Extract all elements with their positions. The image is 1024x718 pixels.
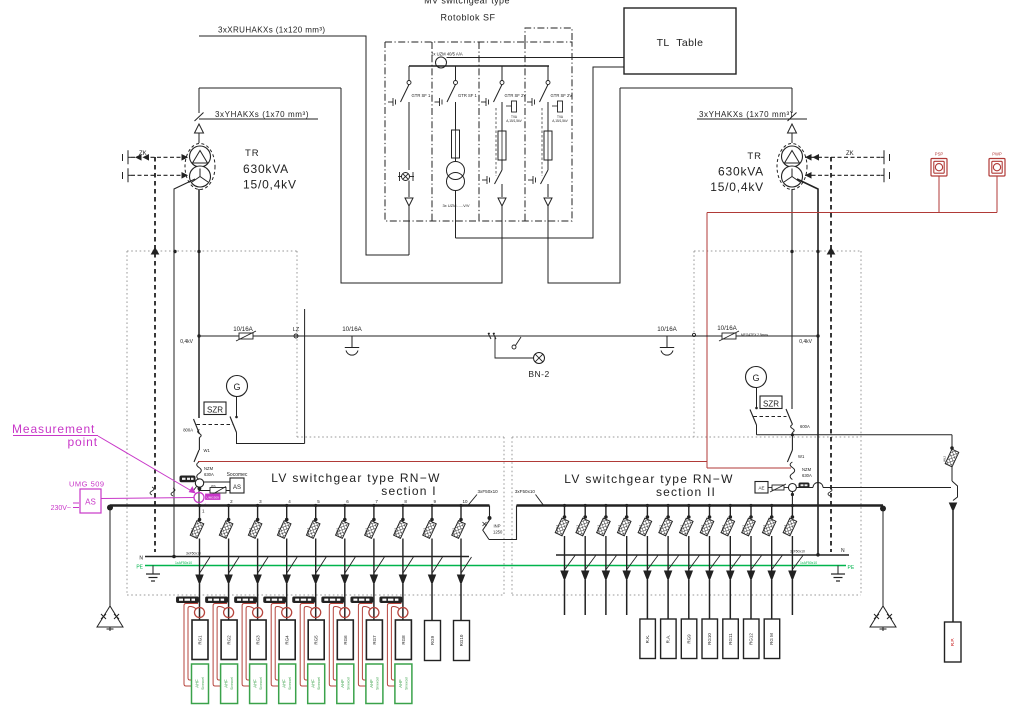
red control wire riser	[706, 213, 708, 469]
outgoing panel RG1	[192, 620, 208, 660]
svg-text:TL Table: TL Table	[657, 37, 704, 49]
section II feeder 12 wire	[791, 580, 793, 615]
section II feeder 1 switch	[555, 504, 575, 580]
svg-text:RG3: RG3	[256, 635, 261, 645]
svg-text:15/0,4kV: 15/0,4kV	[243, 178, 297, 192]
svg-text:630kVA: 630kVA	[243, 162, 289, 176]
incoming MV cable 3xXRUHAKXs	[199, 26, 409, 256]
left transformer cable arrow	[195, 124, 204, 143]
section II feeder 7 switch	[679, 504, 699, 580]
section I feeder 4 switch	[277, 499, 297, 584]
UMG 509 power analyser	[51, 480, 194, 514]
svg-text:R.K.: R.K.	[645, 635, 650, 644]
svg-text:3xF50x10: 3xF50x10	[478, 489, 499, 494]
svg-text:section II: section II	[656, 485, 716, 499]
svg-text:3xF50x10: 3xF50x10	[515, 489, 536, 494]
red control wire to section I incomer	[198, 461, 707, 463]
svg-text:INP: INP	[494, 524, 501, 529]
left transformer neutral conductor	[174, 179, 195, 557]
aux socket outlet 1	[342, 326, 362, 355]
generator G left	[227, 376, 248, 397]
feeder 5 CT plate	[293, 597, 315, 603]
svg-text:RG9: RG9	[430, 635, 435, 645]
section II feeder 9 switch	[721, 504, 741, 580]
svg-text:Sinexcel: Sinexcel	[259, 677, 263, 690]
ZK riser right (dashed)	[830, 157, 832, 552]
0,4kV auxiliary bus	[180, 334, 819, 345]
svg-text:AHF: AHF	[311, 679, 316, 688]
breaker NZM 630A right	[787, 450, 812, 480]
feeder 3 measuring CT (red)	[253, 608, 263, 618]
svg-text:WŁ2: WŁ2	[742, 525, 746, 532]
svg-text:WŁ2: WŁ2	[306, 528, 310, 535]
transformer TR1	[185, 144, 215, 190]
svg-text:WŁ2: WŁ2	[555, 525, 559, 532]
MV switchgear title	[424, 0, 510, 23]
red control wire PSP/PWP	[707, 176, 997, 213]
svg-text:WŁ2: WŁ2	[700, 525, 704, 532]
svg-text:W1: W1	[204, 448, 211, 453]
section II feeder 11 switch	[762, 504, 782, 580]
MV bay 2 wire down	[455, 191, 457, 239]
svg-text:Sinexcel: Sinexcel	[404, 677, 408, 690]
svg-text:RG4: RG4	[285, 635, 290, 645]
feeder 1 wire	[199, 584, 201, 620]
svg-text:15/0,4kV: 15/0,4kV	[710, 180, 764, 194]
outgoing panel RG12	[744, 619, 760, 659]
MV bay 1 disconnector GTR SF 1	[388, 66, 431, 106]
MV bay 2 disconnector GTR SF 1	[435, 66, 478, 106]
svg-text:3xF50x10: 3xF50x10	[186, 552, 201, 556]
svg-text:SZR: SZR	[763, 400, 779, 409]
section II neutral bus N	[556, 548, 849, 555]
feeder 7 CT plate	[351, 597, 373, 603]
outgoing panel RG4	[279, 620, 295, 660]
fuse link to AS	[199, 484, 230, 495]
feeder 8 measuring CT (red)	[398, 608, 408, 618]
busbar size callout section I	[468, 489, 498, 505]
reserve feeder wire lower with crossover	[796, 483, 951, 488]
MV cabinet top extension box	[525, 28, 572, 42]
MV bay 4 fuse-switch internals	[528, 101, 569, 206]
section II feeder 4 wire	[626, 580, 628, 615]
svg-text:WŁ2: WŁ2	[679, 525, 683, 532]
svg-text:Sinexcel: Sinexcel	[346, 677, 350, 690]
svg-text:AS: AS	[85, 498, 96, 507]
reserve feeder wire upper	[757, 433, 953, 436]
svg-text:GTR SF 1: GTR SF 1	[458, 93, 478, 98]
feeder 4 AHF wiring (red)	[271, 604, 285, 687]
feeder 6 wire	[344, 584, 346, 620]
svg-text:RG6: RG6	[343, 635, 348, 645]
active harmonic filter AHF 5	[308, 664, 325, 704]
section I title	[271, 471, 440, 498]
feeder 9 wire	[431, 584, 433, 620]
feeder 2 wire	[228, 584, 230, 620]
svg-text:Measurement: Measurement	[12, 422, 95, 436]
section II feeder 10 switch	[742, 504, 762, 580]
feeder 1 measuring CT (red)	[195, 608, 205, 618]
svg-text:AHF: AHF	[195, 679, 200, 688]
CT secondary wire to TL Table	[447, 57, 625, 59]
svg-text:3x UZM 40/5 A/A: 3x UZM 40/5 A/A	[431, 52, 463, 57]
svg-text:AHF: AHF	[282, 679, 287, 688]
aux socket outlet 2	[657, 326, 677, 355]
svg-text:PE: PE	[848, 565, 855, 571]
svg-text:Rotoblok SF: Rotoblok SF	[440, 13, 495, 23]
section I feeder 5 switch	[306, 499, 326, 584]
measuring CT right	[788, 484, 796, 497]
aux connection point right	[692, 333, 695, 336]
measurement point marker	[194, 493, 220, 508]
MV switchgear cabinet outline (dash-dot)	[385, 42, 572, 221]
svg-text:10: 10	[463, 499, 469, 504]
svg-text:LZ: LZ	[293, 327, 300, 333]
MV bay 2 voltage transformer 3x UZM...V/V	[442, 158, 469, 208]
right surge arrester	[870, 606, 896, 631]
PE labels right	[800, 561, 855, 571]
svg-text:WŁ2: WŁ2	[190, 528, 194, 535]
svg-text:RG8: RG8	[401, 635, 406, 645]
bus coupler INP 1250	[483, 506, 517, 540]
right transformer cable arrow	[788, 124, 797, 143]
svg-text:N: N	[139, 556, 143, 562]
line break mark right dashed	[828, 488, 832, 496]
active harmonic filter AHF 8	[395, 664, 412, 704]
svg-text:UMG 509: UMG 509	[69, 480, 105, 489]
active harmonic filter AHF 4	[279, 664, 296, 704]
VT secondary wire to TL Table	[456, 67, 625, 238]
svg-text:RG11: RG11	[728, 633, 733, 645]
outgoing panel RG8	[395, 620, 411, 660]
feeder 2 CT plate	[206, 597, 228, 603]
svg-text:GTR SF 2V: GTR SF 2V	[551, 93, 573, 98]
feeder 1 AHF wiring (red)	[184, 604, 198, 687]
right transformer LV phase conductor	[791, 189, 793, 409]
generator G right	[746, 367, 767, 388]
current transformer 3x UZM 40/5 A/A	[431, 52, 463, 69]
feeder 3 AHF wiring (red)	[242, 604, 256, 687]
MV bay 1 riser	[408, 102, 410, 170]
svg-text:800A: 800A	[183, 428, 193, 433]
junction dots right enclosure top	[790, 248, 834, 254]
section I feeder 9 switch	[423, 499, 443, 584]
feeder 7 wire	[373, 584, 375, 620]
svg-text:Sinexcel: Sinexcel	[317, 677, 321, 690]
aux fuse 10/16A left	[233, 326, 256, 341]
feeder 5 wire	[315, 584, 317, 620]
svg-text:230V~: 230V~	[51, 505, 71, 512]
MV bay divider 1-2	[431, 42, 433, 221]
svg-text:ZK: ZK	[846, 151, 854, 157]
svg-text:3xXRUHAKXs (1x120 mm³): 3xXRUHAKXs (1x120 mm³)	[218, 26, 326, 35]
svg-text:WŁ2: WŁ2	[659, 525, 663, 532]
PE bus (green)	[136, 561, 846, 571]
section II feeder 6 switch	[659, 504, 679, 580]
generator reserve riser	[304, 309, 306, 444]
changeover switch 600A right	[750, 388, 810, 450]
junction dots left enclosure top	[152, 248, 201, 254]
wire into bus section I	[198, 490, 200, 505]
section I feeder 2 switch	[219, 499, 239, 584]
transformer TR2	[777, 144, 807, 190]
section II feeder 11 wire	[771, 580, 773, 619]
svg-text:1250: 1250	[493, 530, 503, 535]
LZ connection point	[293, 327, 300, 338]
right transformer neutral conductor	[797, 179, 818, 554]
MV bay divider 3-4	[524, 42, 526, 221]
svg-text:MEGATEX 2,5mm²: MEGATEX 2,5mm²	[741, 333, 768, 337]
svg-text:TR: TR	[747, 151, 762, 162]
svg-text:BN-2: BN-2	[528, 369, 549, 379]
section I feeder 8 switch	[393, 499, 413, 584]
svg-text:RG9: RG9	[686, 634, 691, 644]
outgoing panel RG5	[308, 620, 324, 660]
svg-text:WŁ2: WŁ2	[721, 525, 725, 532]
svg-text:Sinexcel: Sinexcel	[230, 677, 234, 690]
svg-text:AHF: AHF	[224, 679, 229, 688]
svg-text:WŁ2: WŁ2	[248, 528, 252, 535]
svg-text:UMG509: UMG509	[207, 495, 220, 499]
cable 3xYHAKXs right	[620, 88, 807, 121]
section I neutral bus N	[139, 552, 469, 562]
measurement point callout	[12, 422, 195, 493]
section II feeder 3 wire	[605, 580, 607, 615]
svg-text:10/16A: 10/16A	[657, 326, 677, 333]
svg-text:A,15/1,5kV: A,15/1,5kV	[552, 119, 568, 123]
left bus earthing conductor	[107, 505, 113, 607]
MV busbar	[409, 65, 549, 67]
svg-text:PWP: PWP	[992, 152, 1002, 157]
metering plate right	[799, 483, 809, 488]
section I feeder 1 switch	[190, 504, 210, 584]
svg-text:R.P.: R.P.	[950, 638, 955, 646]
svg-text:WŁ2: WŁ2	[576, 525, 580, 532]
line break mark left dashed	[150, 487, 154, 495]
svg-text:WŁ2: WŁ2	[638, 525, 642, 532]
svg-text:WŁ2: WŁ2	[762, 525, 766, 532]
svg-text:AS: AS	[233, 485, 241, 491]
svg-text:10/16A: 10/16A	[233, 326, 253, 333]
svg-text:WŁ2: WŁ2	[596, 525, 600, 532]
feeder 2 measuring CT (red)	[224, 608, 234, 618]
svg-text:PE: PE	[136, 565, 143, 571]
SZR box left	[204, 402, 226, 415]
svg-text:AHF: AHF	[340, 679, 345, 688]
LV switchgear section II enclosure (dotted)	[512, 251, 861, 595]
svg-text:RG M: RG M	[769, 633, 774, 645]
reserve feeder R.P.	[943, 435, 959, 622]
svg-text:G: G	[233, 382, 240, 392]
svg-text:Socomec: Socomec	[227, 472, 248, 478]
wire into bus section II	[791, 491, 793, 505]
svg-text:SZR: SZR	[207, 406, 223, 415]
svg-text:N: N	[841, 548, 845, 554]
MV bay 1 outgoing wire	[408, 206, 410, 255]
outgoing panel RG3	[250, 620, 266, 660]
svg-text:WŁ2: WŁ2	[423, 528, 427, 535]
outgoing panel RG6	[337, 620, 353, 660]
feeder 8 wire	[402, 584, 404, 620]
feeder 10 wire	[460, 584, 462, 620]
red control wire to section II incomer	[707, 467, 791, 469]
svg-text:WŁ2: WŁ2	[452, 528, 456, 535]
svg-text:RG2: RG2	[227, 635, 232, 645]
measuring CT left	[193, 479, 204, 491]
fuse link right incomer	[770, 484, 788, 492]
outgoing panel R.A.	[661, 619, 677, 659]
ZK riser left (dashed)	[154, 157, 156, 552]
svg-text:G: G	[752, 373, 759, 383]
active harmonic filter AHF 2	[221, 664, 238, 704]
section II feeder 5 wire	[646, 580, 648, 619]
aux fuse 10/16A right	[717, 325, 768, 341]
svg-text:AHF: AHF	[253, 679, 258, 688]
active harmonic filter AHF 6	[337, 664, 354, 704]
outgoing panel RG11	[723, 619, 739, 659]
svg-text:LV switchgear type RN−W: LV switchgear type RN−W	[271, 471, 440, 485]
section II feeder 7 wire	[688, 580, 690, 619]
section II feeder 9 wire	[729, 580, 731, 619]
svg-text:3xYHAKXs (1x70 mm³): 3xYHAKXs (1x70 mm³)	[699, 110, 793, 119]
svg-text:GTR SF 1: GTR SF 1	[412, 93, 432, 98]
breaker NZM 630A left	[194, 450, 214, 480]
MV bay 1 cable arrow	[405, 181, 413, 207]
neutral junction left	[172, 555, 176, 559]
feeder 6 CT plate	[322, 597, 344, 603]
svg-text:WŁ2: WŁ2	[783, 525, 787, 532]
feeder 3 CT plate	[235, 597, 257, 603]
PSP fire button	[931, 152, 947, 177]
svg-text:RG10: RG10	[707, 633, 712, 645]
section I feeder 3 switch	[248, 499, 268, 584]
TR2 label	[710, 151, 764, 194]
section II feeder 3 switch	[596, 504, 616, 580]
svg-text:0,4kV: 0,4kV	[180, 339, 193, 345]
section II main busbar	[517, 504, 884, 507]
svg-text:WŁ2: WŁ2	[335, 528, 339, 535]
section II feeder 8 wire	[709, 580, 711, 619]
Socomec AS device	[203, 472, 248, 493]
MV bay 1 earthing indicator	[398, 172, 414, 181]
outgoing panel RG M	[764, 619, 780, 659]
line break mark left neutral	[171, 488, 175, 496]
svg-text:RG12: RG12	[749, 633, 754, 645]
svg-text:PSP: PSP	[935, 152, 944, 157]
svg-text:MV switchgear type: MV switchgear type	[424, 0, 510, 6]
outgoing panel R.P.	[945, 622, 962, 662]
left surge arrester	[97, 606, 123, 631]
svg-text:RG10: RG10	[459, 634, 464, 646]
neutral junction right	[816, 553, 820, 557]
svg-text:WŁ2: WŁ2	[943, 456, 947, 463]
svg-text:W1: W1	[798, 454, 805, 459]
MV bay 2 fuse	[452, 102, 460, 158]
active harmonic filter AHF 7	[366, 664, 383, 704]
svg-text:3x UZM......V/V: 3x UZM......V/V	[442, 203, 469, 208]
MV bay divider 2-3	[478, 42, 480, 221]
feeder 1 CT plate	[177, 597, 199, 603]
section II feeder 1 wire	[564, 580, 566, 615]
section I feeder 7 switch	[364, 499, 384, 584]
svg-text:0,4kV: 0,4kV	[799, 339, 812, 345]
feeder 7 AHF wiring (red)	[358, 604, 372, 687]
TR1 label	[243, 148, 297, 192]
feeder 4 CT plate	[264, 597, 286, 603]
svg-text:AHF: AHF	[398, 679, 403, 688]
outgoing panel RG7	[366, 620, 382, 660]
svg-text:WŁ2: WŁ2	[277, 528, 281, 535]
svg-text:600A: 600A	[800, 424, 810, 429]
outgoing panel RG2	[221, 620, 237, 660]
section II feeder 4 switch	[617, 504, 637, 580]
feeder 5 AHF wiring (red)	[300, 604, 314, 687]
section II title	[564, 472, 733, 499]
svg-text:WŁ2: WŁ2	[617, 525, 621, 532]
left transformer LV phase conductor	[198, 189, 200, 418]
svg-text:TR: TR	[245, 148, 260, 159]
svg-text:Sinexcel: Sinexcel	[201, 677, 205, 690]
PWP fire button	[989, 152, 1005, 177]
svg-text:Sinexcel: Sinexcel	[375, 677, 379, 690]
svg-text:A,15/1,5kV: A,15/1,5kV	[506, 119, 522, 123]
section I feeder 6 switch	[335, 499, 355, 584]
svg-text:R.A.: R.A.	[666, 635, 671, 644]
svg-text:RG1: RG1	[198, 635, 203, 645]
MV bay 3 disconnector GTR SF 2V	[481, 66, 526, 106]
section II feeder 8 switch	[700, 504, 720, 580]
svg-text:1xAF50x10: 1xAF50x10	[175, 561, 192, 565]
svg-text:630kVA: 630kVA	[718, 165, 764, 179]
feeder 2 AHF wiring (red)	[213, 604, 227, 687]
feeder 4 wire	[286, 584, 288, 620]
feeder 4 measuring CT (red)	[282, 608, 292, 618]
MV bay 4 disconnector GTR SF 2V	[527, 66, 572, 106]
feeder 3 wire	[257, 584, 259, 620]
svg-text:NZM: NZM	[204, 466, 214, 471]
svg-text:630A: 630A	[802, 473, 812, 478]
svg-text:RG7: RG7	[372, 635, 377, 645]
svg-text:WŁ2: WŁ2	[219, 528, 223, 535]
section II feeder 6 wire	[667, 580, 669, 619]
busbar size callout section II	[515, 489, 544, 505]
svg-text:1xAF50x10: 1xAF50x10	[800, 561, 817, 565]
right bus earthing conductor	[880, 506, 886, 607]
section I feeder 10 switch	[452, 499, 472, 584]
PE earth right	[831, 566, 845, 582]
changeover switch 800A left	[183, 397, 304, 451]
outgoing panel R.K.	[640, 619, 656, 659]
lighting switch and lamp BN-2	[488, 333, 550, 379]
TL Table box	[624, 8, 736, 74]
svg-text:NZM: NZM	[802, 467, 812, 472]
svg-text:10/16A: 10/16A	[342, 326, 362, 333]
section II feeder 5 switch	[638, 504, 658, 580]
svg-text:WŁ2: WŁ2	[393, 528, 397, 535]
svg-text:3xYHAKXs (1x70 mm³): 3xYHAKXs (1x70 mm³)	[215, 110, 309, 119]
AE device right	[755, 482, 772, 494]
MV bay 3 outgoing wire to left transformer	[341, 88, 502, 283]
feeder 7 measuring CT (red)	[369, 608, 379, 618]
cable 3xYHAKXs left	[195, 88, 342, 121]
svg-text:point: point	[67, 435, 98, 449]
feeder 6 AHF wiring (red)	[329, 604, 343, 687]
PE earth left	[146, 566, 160, 582]
outgoing panel RG9	[681, 619, 697, 659]
section I main busbar	[110, 504, 490, 507]
feeder 6 measuring CT (red)	[340, 608, 350, 618]
ZK earthing link left	[123, 150, 188, 182]
